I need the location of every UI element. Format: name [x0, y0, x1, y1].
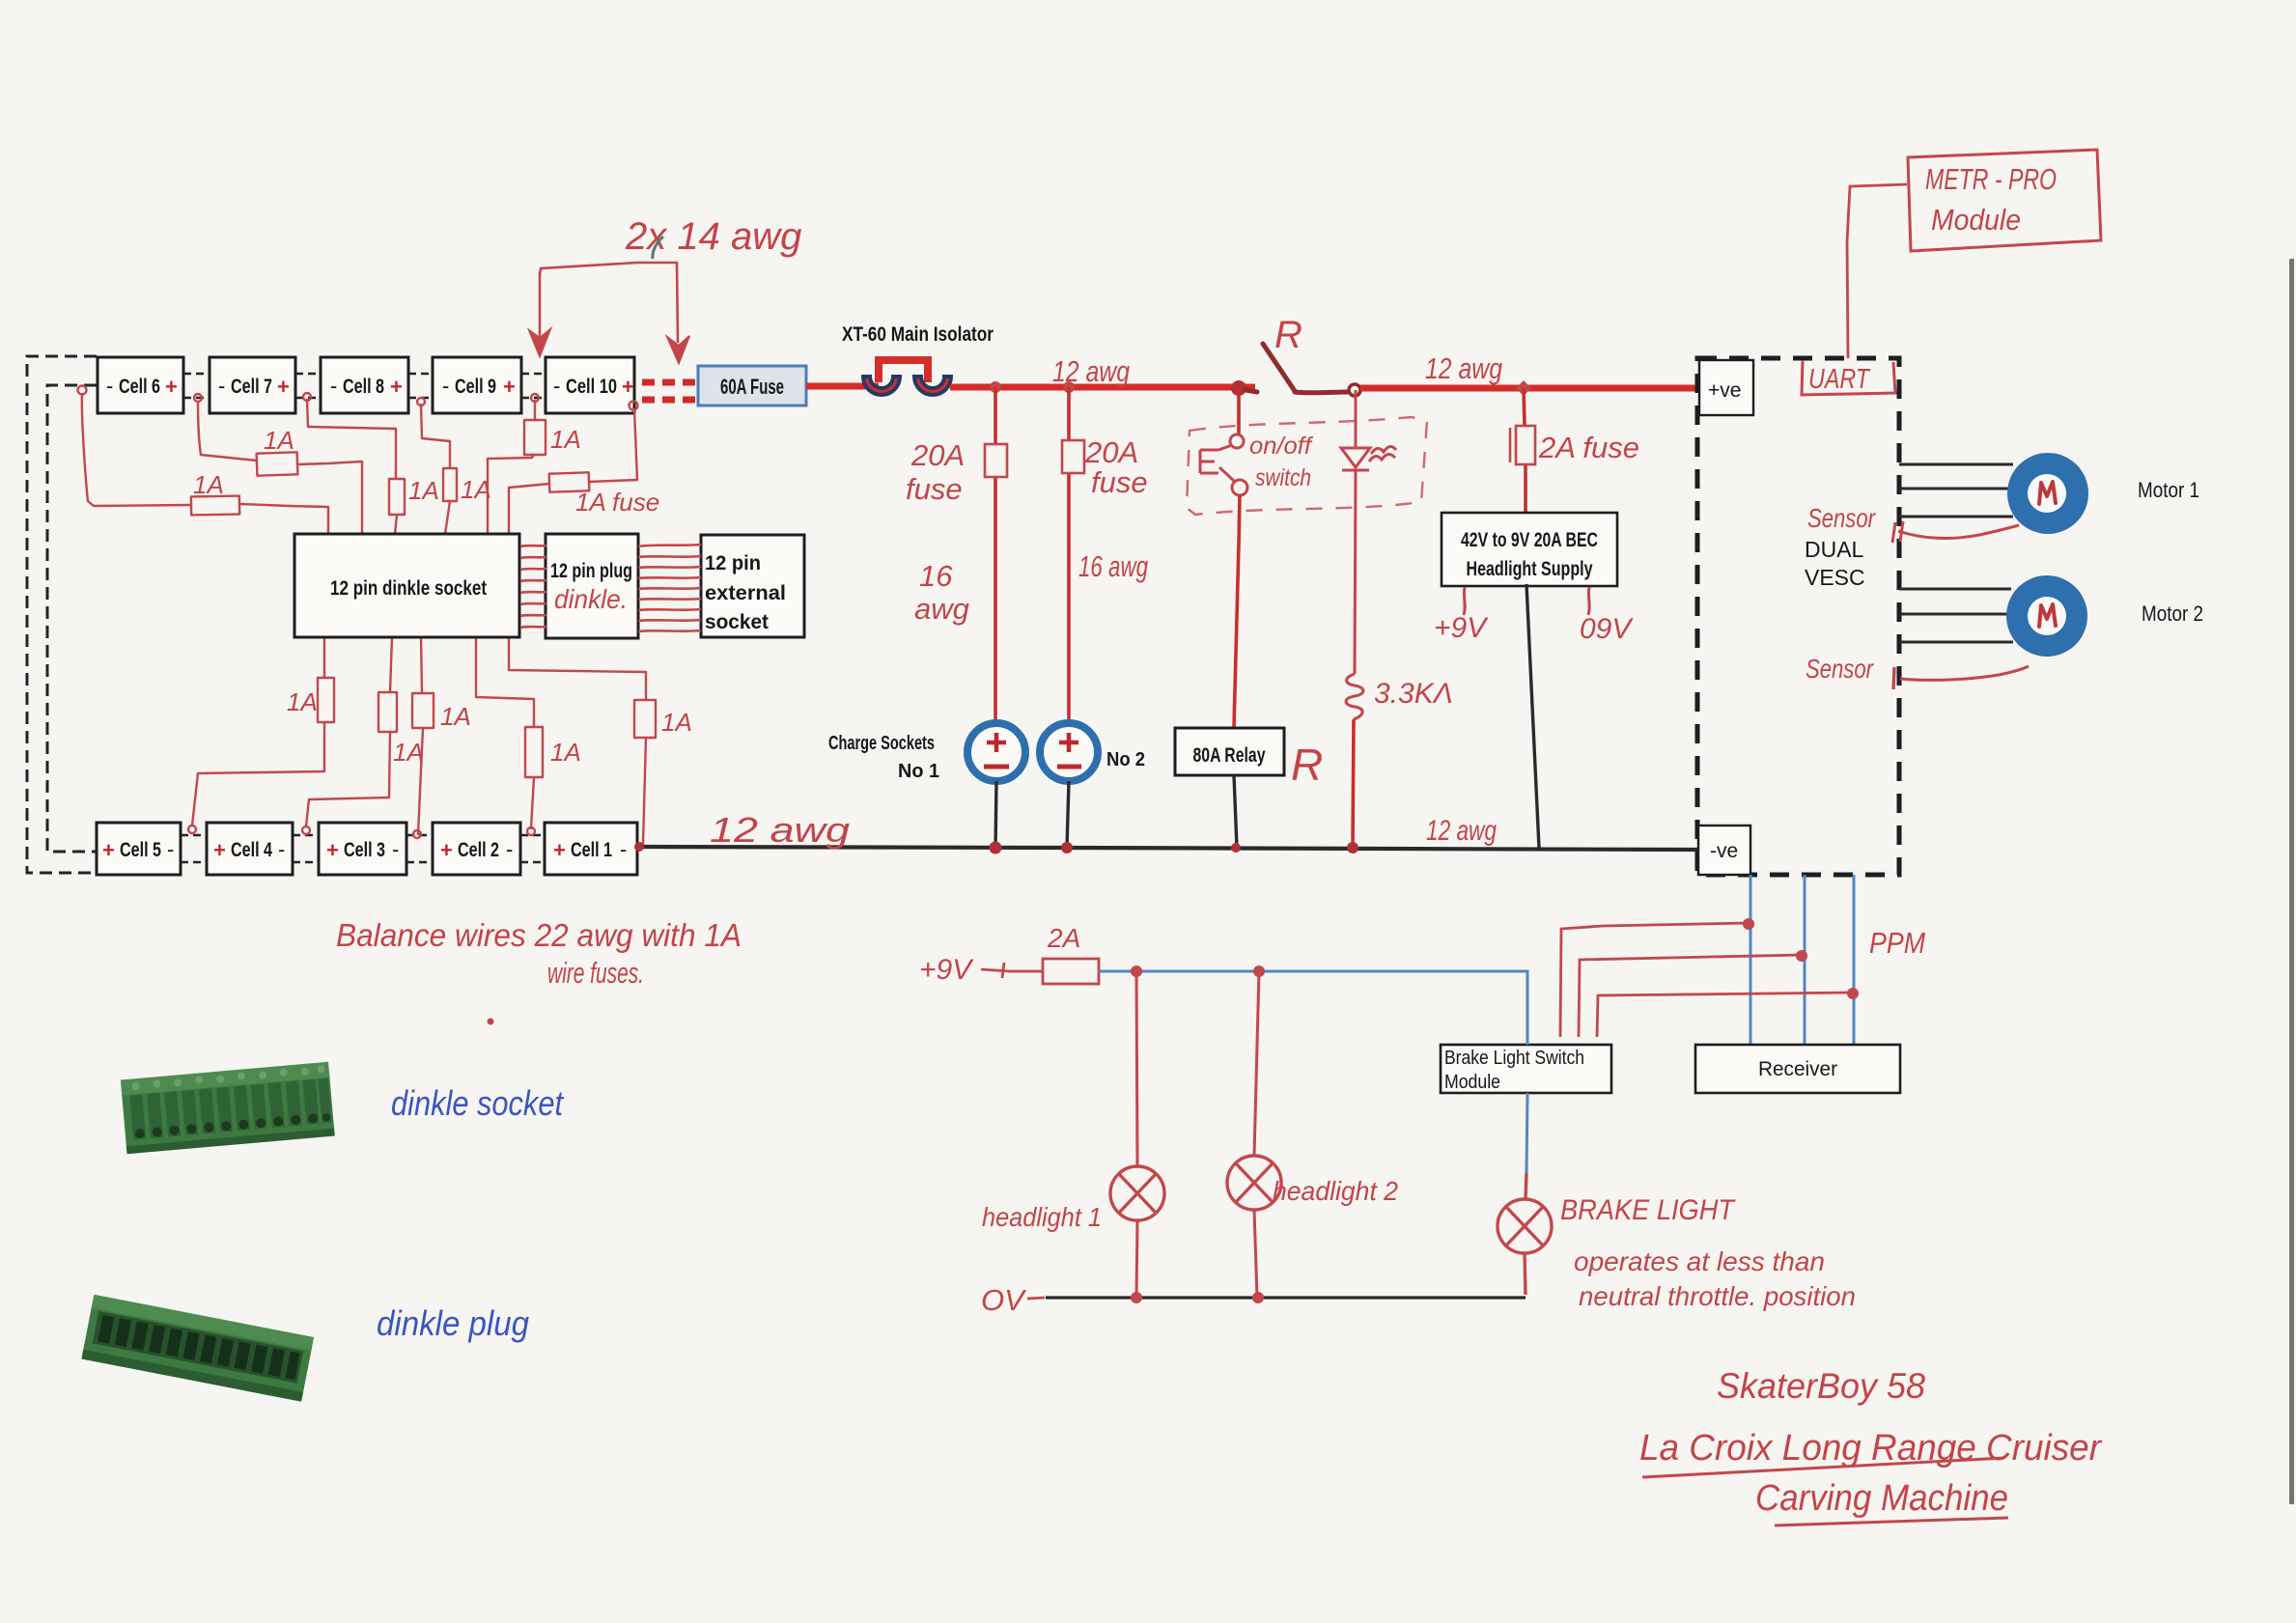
svg-text:Cell 6: Cell 6	[119, 376, 160, 398]
svg-text:12 pin: 12 pin	[705, 552, 761, 574]
wire: headlight2 drop	[1254, 971, 1259, 1156]
svg-text:dinkle socket: dinkle socket	[391, 1083, 565, 1123]
node Cell6/7 junction	[194, 394, 202, 402]
svg-text:20A: 20A	[1084, 435, 1138, 469]
fuse 1A F2	[257, 452, 298, 475]
wire: inter-cell dashed links bottom row	[181, 835, 545, 862]
wire: socket-to-plug pin links	[520, 546, 546, 628]
svg-text:+9V: +9V	[919, 954, 974, 986]
wire: motor1 sensor lead	[1898, 525, 2019, 538]
svg-text:Receiver: Receiver	[1758, 1058, 1837, 1080]
svg-text:+: +	[553, 838, 566, 862]
LED indicator	[1341, 390, 1396, 674]
fuse 1A G5	[634, 700, 656, 738]
svg-text:+: +	[503, 375, 516, 399]
svg-text:BRAKE LIGHT: BRAKE LIGHT	[1560, 1194, 1736, 1226]
svg-text:09V: 09V	[1580, 613, 1634, 645]
wire: main red bus fuse to isolator	[806, 383, 879, 390]
svg-text:Module: Module	[1931, 203, 2021, 237]
svg-text:Brake Light Switch: Brake Light Switch	[1444, 1048, 1584, 1069]
wire: blue +9V rail to brake module	[1099, 971, 1527, 1045]
wire: motor2 phase wires	[1899, 589, 2013, 642]
svg-text:+: +	[102, 838, 115, 862]
svg-text:-: -	[218, 374, 225, 398]
wire: headlight2 to 0V	[1254, 1210, 1257, 1298]
battery cell Cell 8	[321, 357, 408, 413]
node junction at 2A fuse drop	[1516, 380, 1531, 396]
wire: main red bus switch to VESC +ve	[1360, 385, 1697, 392]
svg-text:-ve: -ve	[1710, 840, 1738, 862]
METR-PRO module box (red)	[1908, 150, 2101, 251]
wire: motor2 sensor lead	[1900, 666, 2029, 680]
terminal +ve	[1699, 360, 1753, 415]
svg-text:1A: 1A	[461, 475, 491, 504]
svg-text:16: 16	[919, 559, 953, 593]
svg-text:dinkle.: dinkle.	[554, 584, 628, 614]
svg-text:-: -	[392, 837, 399, 861]
svg-text:2A: 2A	[1047, 923, 1080, 953]
svg-text:+: +	[622, 375, 634, 399]
wire: Cell6/7 junction balance lead	[198, 402, 257, 461]
svg-text:on/off: on/off	[1249, 433, 1314, 460]
receiver box	[1695, 1045, 1900, 1093]
terminal -ve	[1698, 825, 1750, 875]
svg-text:-: -	[620, 837, 627, 861]
svg-text:1A: 1A	[287, 687, 318, 716]
node bus charge2	[1061, 842, 1073, 853]
wire: BEC +9V stub	[1464, 587, 1465, 615]
wire: brake module to brake light (blue)	[1526, 1093, 1527, 1173]
svg-text:60A Fuse: 60A Fuse	[720, 375, 784, 399]
wire: lower balance lead socket to Cell3/2	[421, 637, 422, 693]
lamp headlight 1	[1110, 1166, 1164, 1220]
wire: on/off switch to relay	[1234, 495, 1240, 728]
wire: BEC return to negative bus	[1526, 584, 1539, 848]
lamp headlight 2	[1227, 1156, 1281, 1210]
svg-text:1A: 1A	[661, 708, 692, 737]
battery cell Cell 1	[545, 823, 637, 875]
svg-text:dinkle plug: dinkle plug	[377, 1303, 529, 1343]
svg-text:R: R	[1291, 740, 1323, 790]
svg-text:operates at less than: operates at less than	[1574, 1246, 1825, 1276]
svg-text:fuse: fuse	[1091, 465, 1148, 499]
node 0V headlight2	[1252, 1292, 1264, 1303]
arrowhead left	[529, 329, 550, 356]
svg-text:DUAL: DUAL	[1805, 537, 1864, 562]
wire: headlight1 drop	[1136, 971, 1137, 1165]
svg-text:3.3KΛ: 3.3KΛ	[1374, 678, 1453, 710]
wire: resistor to negative bus	[1353, 719, 1354, 848]
svg-text:UART: UART	[1808, 364, 1871, 395]
wire: Cell8/9 junction balance lead	[421, 405, 450, 468]
battery cell Cell 7	[210, 357, 295, 413]
12 pin external socket	[701, 535, 804, 637]
photo dinkle socket	[121, 1062, 335, 1155]
svg-text:12 pin dinkle socket: 12 pin dinkle socket	[330, 577, 487, 600]
wire: lower balance lead socket to Cell2/1	[476, 637, 534, 727]
node Cell10 plus hook	[630, 402, 638, 410]
node headlight1 tap	[1131, 965, 1142, 977]
wire: negative bus Cell1 to VESC -ve	[637, 847, 1697, 850]
svg-text:+9V: +9V	[1434, 612, 1489, 644]
svg-text:12 awg: 12 awg	[1426, 815, 1497, 847]
lamp brake light	[1498, 1173, 1552, 1295]
wire: 2A fuse drop to BEC	[1524, 388, 1525, 426]
svg-text:+ve: +ve	[1708, 379, 1741, 402]
svg-text:PPM: PPM	[1869, 926, 1925, 960]
svg-text:headlight 1: headlight 1	[982, 1202, 1102, 1232]
svg-text:1A: 1A	[408, 476, 439, 505]
wire: PPM red jumper 1	[1560, 923, 1749, 1037]
node Cell8/9 junction	[417, 398, 425, 406]
svg-text:Cell 8: Cell 8	[343, 376, 384, 398]
svg-text:+: +	[165, 375, 178, 399]
wire: inner dashed series link	[47, 385, 97, 852]
battery cell Cell 2	[433, 823, 520, 875]
wire: lower balance lead socket to Cell4/3	[390, 637, 392, 692]
svg-text:16 awg: 16 awg	[1078, 549, 1148, 583]
fuse 20A no2	[1062, 440, 1084, 473]
svg-text:1A: 1A	[264, 426, 294, 455]
svg-text:external: external	[705, 582, 786, 604]
battery cell Cell 5	[97, 823, 181, 875]
battery cell Cell 3	[319, 823, 406, 875]
UART port (red)	[1802, 360, 1895, 395]
svg-text:12 awg: 12 awg	[710, 810, 850, 850]
svg-text:-: -	[506, 837, 513, 861]
XT-60 main isolator symbol	[863, 360, 951, 395]
svg-text:Cell 3: Cell 3	[344, 839, 385, 861]
svg-text:METR - PRO: METR - PRO	[1925, 162, 2057, 196]
svg-text:Motor 1: Motor 1	[2138, 478, 2199, 502]
svg-text:-: -	[330, 374, 337, 398]
svg-text:80A Relay: 80A Relay	[1193, 744, 1266, 767]
wire: 0V rail	[1027, 1298, 1045, 1299]
fuse 1A F3	[389, 479, 405, 515]
pen check mark under 2x	[653, 237, 663, 259]
node Cell7/8 junction	[303, 393, 311, 401]
wire: red dashed pair Cell10 to 60A fuse	[642, 382, 696, 400]
svg-text:12 awg: 12 awg	[1052, 354, 1130, 388]
wire: inter-cell dashed links top row	[183, 374, 546, 398]
svg-text:Motor 2: Motor 2	[2142, 602, 2203, 626]
svg-text:12 pin plug: 12 pin plug	[550, 560, 632, 582]
svg-text:-: -	[106, 374, 113, 398]
svg-text:-: -	[553, 374, 560, 398]
fuse 1A F5	[524, 420, 546, 455]
svg-text:Carving Machine: Carving Machine	[1755, 1478, 2008, 1519]
brake light switch module box	[1441, 1045, 1611, 1093]
svg-text:Headlight Supply: Headlight Supply	[1467, 558, 1593, 580]
svg-text:La Croix Long Range Cruiser: La Croix Long Range Cruiser	[1639, 1428, 2102, 1469]
wire: plug-to-external-socket pin links	[638, 545, 701, 631]
node Cell9/10 junction	[531, 394, 539, 402]
node bus relay	[1231, 843, 1241, 853]
node 0V headlight1	[1131, 1292, 1142, 1303]
svg-text:Cell 2: Cell 2	[458, 839, 499, 861]
wire: headlight1 to 0V	[1136, 1220, 1137, 1298]
battery cell Cell 4	[207, 823, 293, 875]
node headlight2 tap	[1253, 965, 1265, 977]
battery cell Cell 10	[546, 357, 634, 413]
wire: relay drop upper	[1237, 388, 1241, 434]
svg-text:1A: 1A	[550, 425, 581, 454]
svg-text:headlight 2: headlight 2	[1273, 1176, 1398, 1206]
svg-text:1A: 1A	[550, 738, 581, 767]
svg-text:fuse: fuse	[906, 472, 963, 506]
fuse 1A F6	[549, 472, 590, 491]
charge socket No 2	[1040, 723, 1098, 781]
fuse 1A F4	[443, 468, 457, 501]
svg-text:2x 14 awg: 2x 14 awg	[625, 215, 801, 258]
DUAL VESC dashed enclosure	[1697, 358, 1899, 875]
dashed sketch box around on/off switch and LED	[1187, 417, 1427, 515]
wire: outer dashed series link Cell6 to Cell5	[27, 356, 97, 873]
svg-text:No 2: No 2	[1106, 749, 1145, 770]
svg-text:-: -	[167, 837, 174, 861]
svg-text:+: +	[440, 838, 453, 862]
wire: UART to METR-PRO	[1847, 184, 1907, 358]
svg-text:+: +	[213, 838, 226, 862]
battery cell Cell 6	[98, 357, 183, 413]
node junction at 20A drop 2	[1063, 381, 1075, 393]
svg-text:R: R	[1274, 314, 1302, 356]
fuse 1A G3	[412, 693, 434, 728]
svg-text:Sensor: Sensor	[1806, 654, 1874, 684]
switch R main disconnect	[1246, 344, 1348, 393]
svg-text:Cell 10: Cell 10	[566, 376, 617, 398]
svg-text:switch: switch	[1255, 464, 1311, 491]
wire: Cell9/10 junction balance lead	[534, 401, 536, 420]
12 pin dinkle socket	[294, 534, 519, 637]
fuse 2A	[1516, 426, 1535, 464]
svg-text:awg: awg	[914, 592, 969, 626]
svg-text:20A: 20A	[910, 438, 965, 472]
wire: PPM red jumper 2	[1579, 955, 1802, 1037]
battery cell Cell 9	[433, 357, 521, 413]
wire: charge socket No2 to negative bus	[1067, 781, 1069, 848]
12 pin plug (dinkle)	[546, 534, 638, 638]
svg-text:socket: socket	[705, 611, 769, 633]
node Cell1 to bus	[634, 842, 644, 852]
svg-text:1A: 1A	[393, 738, 424, 767]
svg-text:Sensor: Sensor	[1807, 503, 1876, 533]
wire: main red bus isolator to switch	[950, 384, 1255, 391]
svg-text:Cell 9: Cell 9	[455, 376, 496, 398]
svg-text:Module: Module	[1444, 1072, 1500, 1093]
svg-text:VESC: VESC	[1805, 565, 1865, 590]
fuse 1A G4	[525, 727, 543, 777]
svg-text:12 awg: 12 awg	[1425, 351, 1502, 385]
svg-text:+: +	[326, 838, 339, 862]
fuse 1A G2	[378, 692, 397, 732]
svg-text:2A fuse: 2A fuse	[1538, 431, 1639, 464]
svg-text:OV: OV	[981, 1283, 1027, 1317]
wire: PPM red jumper 3	[1597, 993, 1853, 1037]
node junction at relay drop	[1231, 380, 1246, 396]
photo dinkle plug	[81, 1295, 314, 1402]
wire: VESC blue signal lines to receiver	[1750, 875, 1854, 1045]
wire: Cell6 minus balance lead	[82, 394, 191, 506]
arrowhead right	[667, 336, 689, 363]
fuse 1A F1	[191, 496, 239, 516]
wire: lower balance lead socket to Cell5/4	[323, 637, 325, 678]
wire: drop to charge socket No1	[994, 387, 997, 444]
motor M2	[2006, 575, 2087, 657]
wire: +9V lead into 2A fuse	[981, 963, 1010, 978]
svg-text:wire fuses.: wire fuses.	[547, 956, 644, 990]
node bus resistor	[1347, 842, 1358, 853]
svg-text:+: +	[390, 375, 403, 399]
svg-text:Cell 5: Cell 5	[120, 839, 161, 861]
fuse 60A Fuse	[698, 366, 806, 406]
wire: Cell7/8 junction balance lead	[307, 400, 396, 479]
wire: drop to charge socket No2	[1067, 387, 1071, 440]
wire: relay to negative bus	[1234, 775, 1237, 848]
svg-text:+: +	[277, 375, 290, 399]
svg-text:42V to 9V 20A BEC: 42V to 9V 20A BEC	[1461, 529, 1598, 551]
wire: lower balance lead socket to Cell1 minus	[509, 638, 646, 700]
svg-text:1A: 1A	[193, 470, 224, 499]
fuse 2A (headlight rail)	[1043, 959, 1099, 984]
node junction at 20A drop 1	[990, 381, 1001, 393]
svg-text:XT-60 Main Isolator: XT-60 Main Isolator	[842, 323, 994, 346]
svg-text:SkaterBoy 58: SkaterBoy 58	[1717, 1366, 1925, 1406]
svg-text:Balance wires 22 awg with 1A: Balance wires 22 awg with 1A	[336, 917, 742, 953]
ink dot stray	[488, 1019, 494, 1025]
fuse 1A G1	[318, 678, 334, 722]
charge socket No 1	[967, 723, 1025, 781]
resistor 3.3K	[1346, 674, 1363, 719]
BEC 42V to 9V supply	[1442, 513, 1617, 586]
svg-text:Cell 4: Cell 4	[231, 839, 272, 861]
motor M1	[2007, 453, 2088, 534]
fuse 20A no1	[985, 444, 1007, 477]
wire: motor1 phase wires	[1899, 464, 2013, 517]
switch on/off	[1200, 434, 1247, 495]
svg-text:1A: 1A	[440, 702, 471, 731]
svg-text:-: -	[442, 374, 449, 398]
svg-text:-: -	[278, 837, 285, 861]
svg-text:Cell 7: Cell 7	[231, 376, 272, 398]
svg-text:1A fuse: 1A fuse	[575, 488, 659, 517]
svg-text:Charge Sockets: Charge Sockets	[828, 733, 935, 754]
wire: BEC 09V stub	[1588, 587, 1589, 615]
wire: charge socket No1 to negative bus	[995, 781, 996, 848]
svg-text:No 1: No 1	[898, 761, 939, 782]
node bus charge1	[990, 842, 1002, 854]
scanner page right edge	[2289, 259, 2294, 1504]
svg-text:neutral throttle. position: neutral throttle. position	[1579, 1281, 1856, 1311]
relay 80A	[1175, 728, 1284, 775]
wire: Cell10 plus balance lead	[589, 409, 637, 482]
wire: 2x14awg pointer bracket with arrows	[540, 263, 678, 343]
node Cell6 minus hook	[78, 386, 87, 395]
svg-text:Cell 1: Cell 1	[571, 839, 612, 861]
